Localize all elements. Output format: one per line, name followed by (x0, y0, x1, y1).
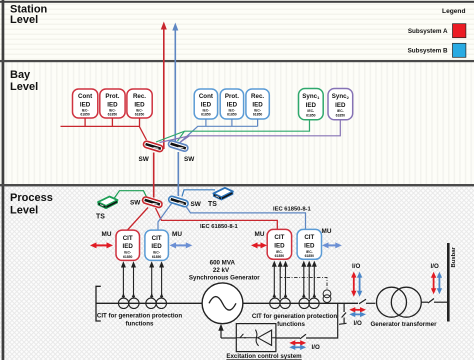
svg-text:61850: 61850 (123, 255, 133, 259)
svg-text:Rec.: Rec. (133, 93, 146, 100)
svg-text:Cont: Cont (199, 93, 213, 100)
wire: red process links to MUs (128, 208, 278, 231)
excitation control system box (236, 324, 276, 352)
svg-text:Prot.: Prot. (105, 93, 119, 100)
IED box Cont A (73, 89, 98, 118)
svg-text:IEC-: IEC- (124, 250, 131, 254)
svg-text:IED: IED (306, 102, 317, 109)
TS blue teleprotection icon (213, 188, 233, 200)
wire: purple sync bus (160, 120, 341, 143)
measurement arrows L-red CIT (121, 261, 136, 298)
switch SW bay A (red) (143, 140, 164, 152)
wire: red IED bus (61, 118, 147, 140)
svg-text:IEC-: IEC- (306, 250, 313, 254)
station level background (0, 0, 474, 61)
busbar (447, 243, 450, 322)
arrow I/O busbar blue vertical (437, 272, 442, 295)
process level background (0, 185, 474, 360)
svg-text:CIT: CIT (304, 234, 314, 241)
wire: blue trunk bay to process (177, 152, 179, 196)
svg-text:61850: 61850 (305, 254, 315, 258)
IED box Cont B (194, 89, 217, 119)
arrow I/O excitation blue (289, 345, 306, 350)
CIT IED box R-red (267, 229, 291, 259)
CIT IED box L-red (116, 230, 140, 260)
svg-text:functions: functions (126, 321, 154, 328)
label Bay Level (10, 69, 38, 93)
wire: green TS link (114, 191, 147, 199)
svg-text:SW: SW (184, 156, 195, 163)
switch SW bay B (blue) (168, 140, 189, 152)
svg-text:IED: IED (151, 243, 162, 250)
TS green teleprotection icon (98, 197, 118, 209)
IED box Sync2 (328, 89, 353, 120)
wire: blue process links to MUs (158, 204, 306, 231)
svg-text:IEC-: IEC- (153, 250, 160, 254)
wire: blue IED bus (180, 119, 258, 143)
svg-text:61850: 61850 (253, 113, 263, 117)
svg-text:I/O: I/O (431, 263, 439, 270)
svg-text:600 MVA: 600 MVA (210, 260, 236, 267)
svg-text:61850: 61850 (108, 113, 118, 117)
svg-text:IED: IED (123, 243, 134, 250)
wire and switch transformer to busbar (421, 299, 447, 304)
svg-text:SW: SW (191, 201, 202, 208)
label Process Level (10, 192, 53, 216)
IED box Sync1 (299, 89, 324, 120)
svg-text:CIT for generation protection: CIT for generation protection (252, 313, 337, 320)
svg-text:IED: IED (304, 243, 315, 250)
one-line: left bracket (96, 286, 101, 321)
svg-text:61850: 61850 (275, 254, 285, 258)
svg-text:Legend: Legend (442, 8, 465, 15)
CIT IED box R-blue (297, 229, 321, 259)
frame top border (0, 1, 474, 3)
svg-text:61850: 61850 (306, 113, 316, 117)
svg-text:61850: 61850 (152, 255, 162, 259)
svg-text:I/O: I/O (352, 263, 360, 270)
svg-text:TS: TS (96, 214, 105, 221)
svg-text:IEC-: IEC- (307, 109, 314, 113)
svg-text:IEC 61850-8-1: IEC 61850-8-1 (273, 207, 311, 213)
svg-text:IEC 61850-8-1: IEC 61850-8-1 (200, 224, 238, 230)
svg-text:Cont: Cont (78, 93, 92, 100)
IED box Rec B (246, 89, 269, 119)
arrow I/O breaker red vertical (351, 272, 356, 297)
svg-text:CIT: CIT (123, 235, 133, 242)
svg-text:I/O: I/O (354, 320, 362, 327)
svg-text:I/O: I/O (312, 344, 320, 351)
svg-text:Level: Level (10, 205, 38, 217)
svg-text:MU: MU (172, 231, 182, 238)
svg-text:Level: Level (10, 81, 38, 93)
wire: blue trunk to station with arrow (172, 23, 178, 148)
CT pair 2 (146, 298, 167, 308)
frame left border (2, 0, 5, 360)
svg-text:IEC-: IEC- (337, 109, 344, 113)
svg-text:Synchronous Generator: Synchronous Generator (189, 275, 260, 282)
svg-text:61850: 61850 (135, 113, 145, 117)
CT pair 1 (118, 298, 139, 308)
svg-text:MU: MU (255, 231, 265, 238)
svg-text:Busbar: Busbar (451, 246, 457, 267)
generator G1 (202, 283, 243, 324)
arrow MU blue L (170, 242, 193, 248)
wire: excitation output with switch (276, 303, 338, 339)
excitation feed arrow to generator (218, 324, 236, 338)
svg-text:61850: 61850 (336, 113, 346, 117)
CT pair 3 (270, 298, 291, 308)
arrow I/O breaker blue vertical (357, 272, 362, 297)
svg-text:SW: SW (139, 156, 150, 163)
wire: earthing switch branch (339, 303, 347, 324)
svg-text:Rec.: Rec. (251, 93, 264, 100)
svg-text:CIT for generation protection: CIT for generation protection (97, 313, 182, 320)
svg-text:61850: 61850 (227, 113, 237, 117)
wire: blue TS link (182, 190, 215, 197)
arrow MU red R (251, 242, 267, 248)
svg-text:SW: SW (130, 200, 141, 207)
svg-text:CIT: CIT (274, 234, 284, 241)
measurement arrows R-blue CIT (301, 261, 317, 299)
CIT IED box L-blue (145, 230, 169, 260)
one-line: generator bus left (96, 302, 202, 304)
svg-text:IED: IED (335, 102, 346, 109)
arrow I/O earthing red (349, 307, 366, 312)
label Station Level (10, 3, 48, 26)
one-line: generator bus right (243, 302, 358, 304)
svg-text:TS: TS (208, 201, 217, 208)
svg-text:Level: Level (10, 14, 38, 26)
svg-text:Generator transformer: Generator transformer (370, 321, 437, 328)
svg-text:MU: MU (322, 228, 332, 235)
bay level background (0, 61, 474, 185)
switch on line before transformer (359, 299, 375, 304)
arrow I/O busbar red vertical (431, 272, 436, 295)
measurement arrows L-blue CIT (149, 261, 164, 298)
svg-text:Prot.: Prot. (225, 93, 239, 100)
arrow I/O earthing blue (349, 312, 366, 317)
generator transformer T1 (377, 287, 422, 317)
svg-text:functions: functions (277, 321, 305, 328)
svg-text:Sync1: Sync1 (302, 93, 320, 100)
thyristor (258, 330, 272, 345)
wire: green sync bus (156, 120, 310, 142)
svg-text:IED: IED (274, 243, 285, 250)
svg-text:Bay: Bay (10, 69, 31, 81)
svg-text:61850: 61850 (80, 113, 90, 117)
arrow MU blue R (322, 242, 342, 248)
IED box Prot A (100, 89, 125, 118)
PT voltage transformer (323, 290, 331, 303)
switch SW process A (red) (142, 196, 163, 208)
arrow MU red L (90, 242, 113, 248)
svg-text:Sync2: Sync2 (332, 93, 350, 100)
svg-text:Excitation control system: Excitation control system (226, 353, 302, 360)
dash-dot measurement link (280, 269, 327, 290)
svg-text:Subsystem B: Subsystem B (408, 48, 448, 55)
measurement arrows R-red CIT (272, 261, 288, 299)
svg-text:IEC-: IEC- (276, 250, 283, 254)
station/bay divider (0, 60, 474, 62)
wire: red trunk bay to process (153, 153, 155, 198)
svg-text:MU: MU (102, 231, 112, 238)
svg-text:CIT: CIT (152, 235, 162, 242)
CT pair 4 (299, 298, 319, 308)
bay/process divider (0, 184, 474, 186)
svg-text:22 kV: 22 kV (213, 267, 230, 274)
IED box Prot B (220, 89, 243, 119)
svg-text:Process: Process (10, 192, 53, 204)
svg-text:Subsystem A: Subsystem A (408, 28, 448, 35)
wire: red trunk to station with arrow (161, 22, 167, 150)
IED box Rec A (127, 89, 152, 118)
svg-text:61850: 61850 (201, 113, 211, 117)
arrow I/O excitation red (289, 340, 306, 345)
switch SW process B (blue) (168, 196, 189, 208)
